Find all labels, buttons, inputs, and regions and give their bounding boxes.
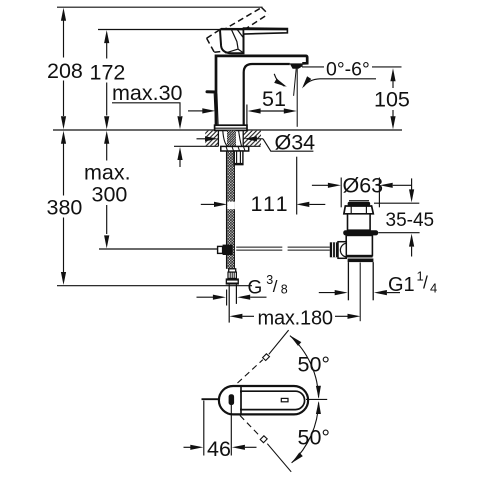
hose end horizontal line [99,248,218,250]
svg-text:50°: 50° [298,426,331,450]
svg-text:/: / [423,273,428,293]
tailpipe axis [359,263,361,322]
plan view lever [241,391,305,409]
svg-text:max.30: max.30 [112,81,183,105]
shank hole edges [217,131,219,147]
threaded shank in deck [227,131,236,147]
gap in hose for 111 dim [227,202,235,210]
svg-text:46: 46 [207,437,231,461]
380 bottom reference line [57,285,252,287]
pop-up waste plug top [349,200,369,202]
svg-text:35-45: 35-45 [386,210,435,231]
supply pipe below [228,285,230,323]
hoses inside shank [223,131,242,146]
svg-text:/: / [273,277,278,296]
svg-text:max.: max. [84,161,131,185]
handle cap [220,29,243,53]
svg-text:4: 4 [430,281,437,296]
knurled adjustment knob [330,242,338,257]
drain tailpipe G1 1/4 [347,262,349,300]
braided supply hose [226,151,234,269]
dim 172 [106,43,108,59]
svg-text:max.180: max.180 [258,308,333,330]
base flange [215,125,247,130]
linkage rod left segment [236,247,282,250]
dim 380 [63,144,65,196]
dim 35-45 [374,202,419,204]
lever (rest position) [244,28,288,34]
G3/8 nut [226,278,239,284]
lever raised (dashed) [207,8,269,53]
plan view outer capsule [219,386,308,414]
deck bottom line [174,145,218,147]
linkage rod right segment [288,247,330,250]
50 degree arc upper [290,336,319,398]
deck top line [53,129,402,131]
swing ray upper [238,330,289,383]
spray stream tilted line [294,69,297,96]
svg-text:0°-6°: 0°-6° [326,58,370,80]
drain flange [344,206,373,214]
deck hatched section right [244,131,262,146]
pop-up lift rod [207,90,216,93]
dim Ø63 [312,184,328,186]
svg-text:8: 8 [281,282,288,296]
dim max.300 [106,144,108,161]
svg-text:111: 111 [251,192,290,216]
aerator [290,63,303,68]
50 degree arc lower [292,403,319,463]
drain o-ring [343,230,378,235]
mounting flange plate [221,146,249,151]
svg-text:Ø34: Ø34 [275,131,316,155]
cap facet lines [225,29,243,53]
drain body [346,235,372,255]
aerator axis line [296,69,298,127]
lever slot [281,398,288,401]
svg-text:51: 51 [262,87,286,111]
svg-text:Ø63: Ø63 [343,174,384,198]
swing ray lower [240,416,291,472]
dim 208 [63,21,65,58]
dim 46 [203,401,205,456]
svg-text:208: 208 [47,59,83,83]
side boss with ball joint [338,242,346,259]
hub mark [229,394,235,405]
axis stub left [202,398,219,400]
lever rest reference line [98,29,234,31]
top reference line (lever raised) [57,6,263,8]
deck hatched section left [205,131,218,146]
svg-text:105: 105 [374,88,410,112]
pop-up tee fitting [218,246,223,253]
dim Ø34 [197,138,206,140]
drain neck [348,214,371,230]
striped connector [228,272,236,278]
svg-text:380: 380 [47,196,83,220]
spout underside [244,64,290,130]
spout axis extension below deck [296,157,298,215]
svg-text:50°: 50° [298,353,331,377]
mounting nut [234,151,243,165]
0-6 degree leader and arc arrows [304,79,377,87]
faucet body outline [216,56,307,125]
svg-text:300: 300 [92,183,128,207]
hose ferrule [229,269,236,272]
dim 105 [302,66,324,68]
axis line right [306,398,327,400]
